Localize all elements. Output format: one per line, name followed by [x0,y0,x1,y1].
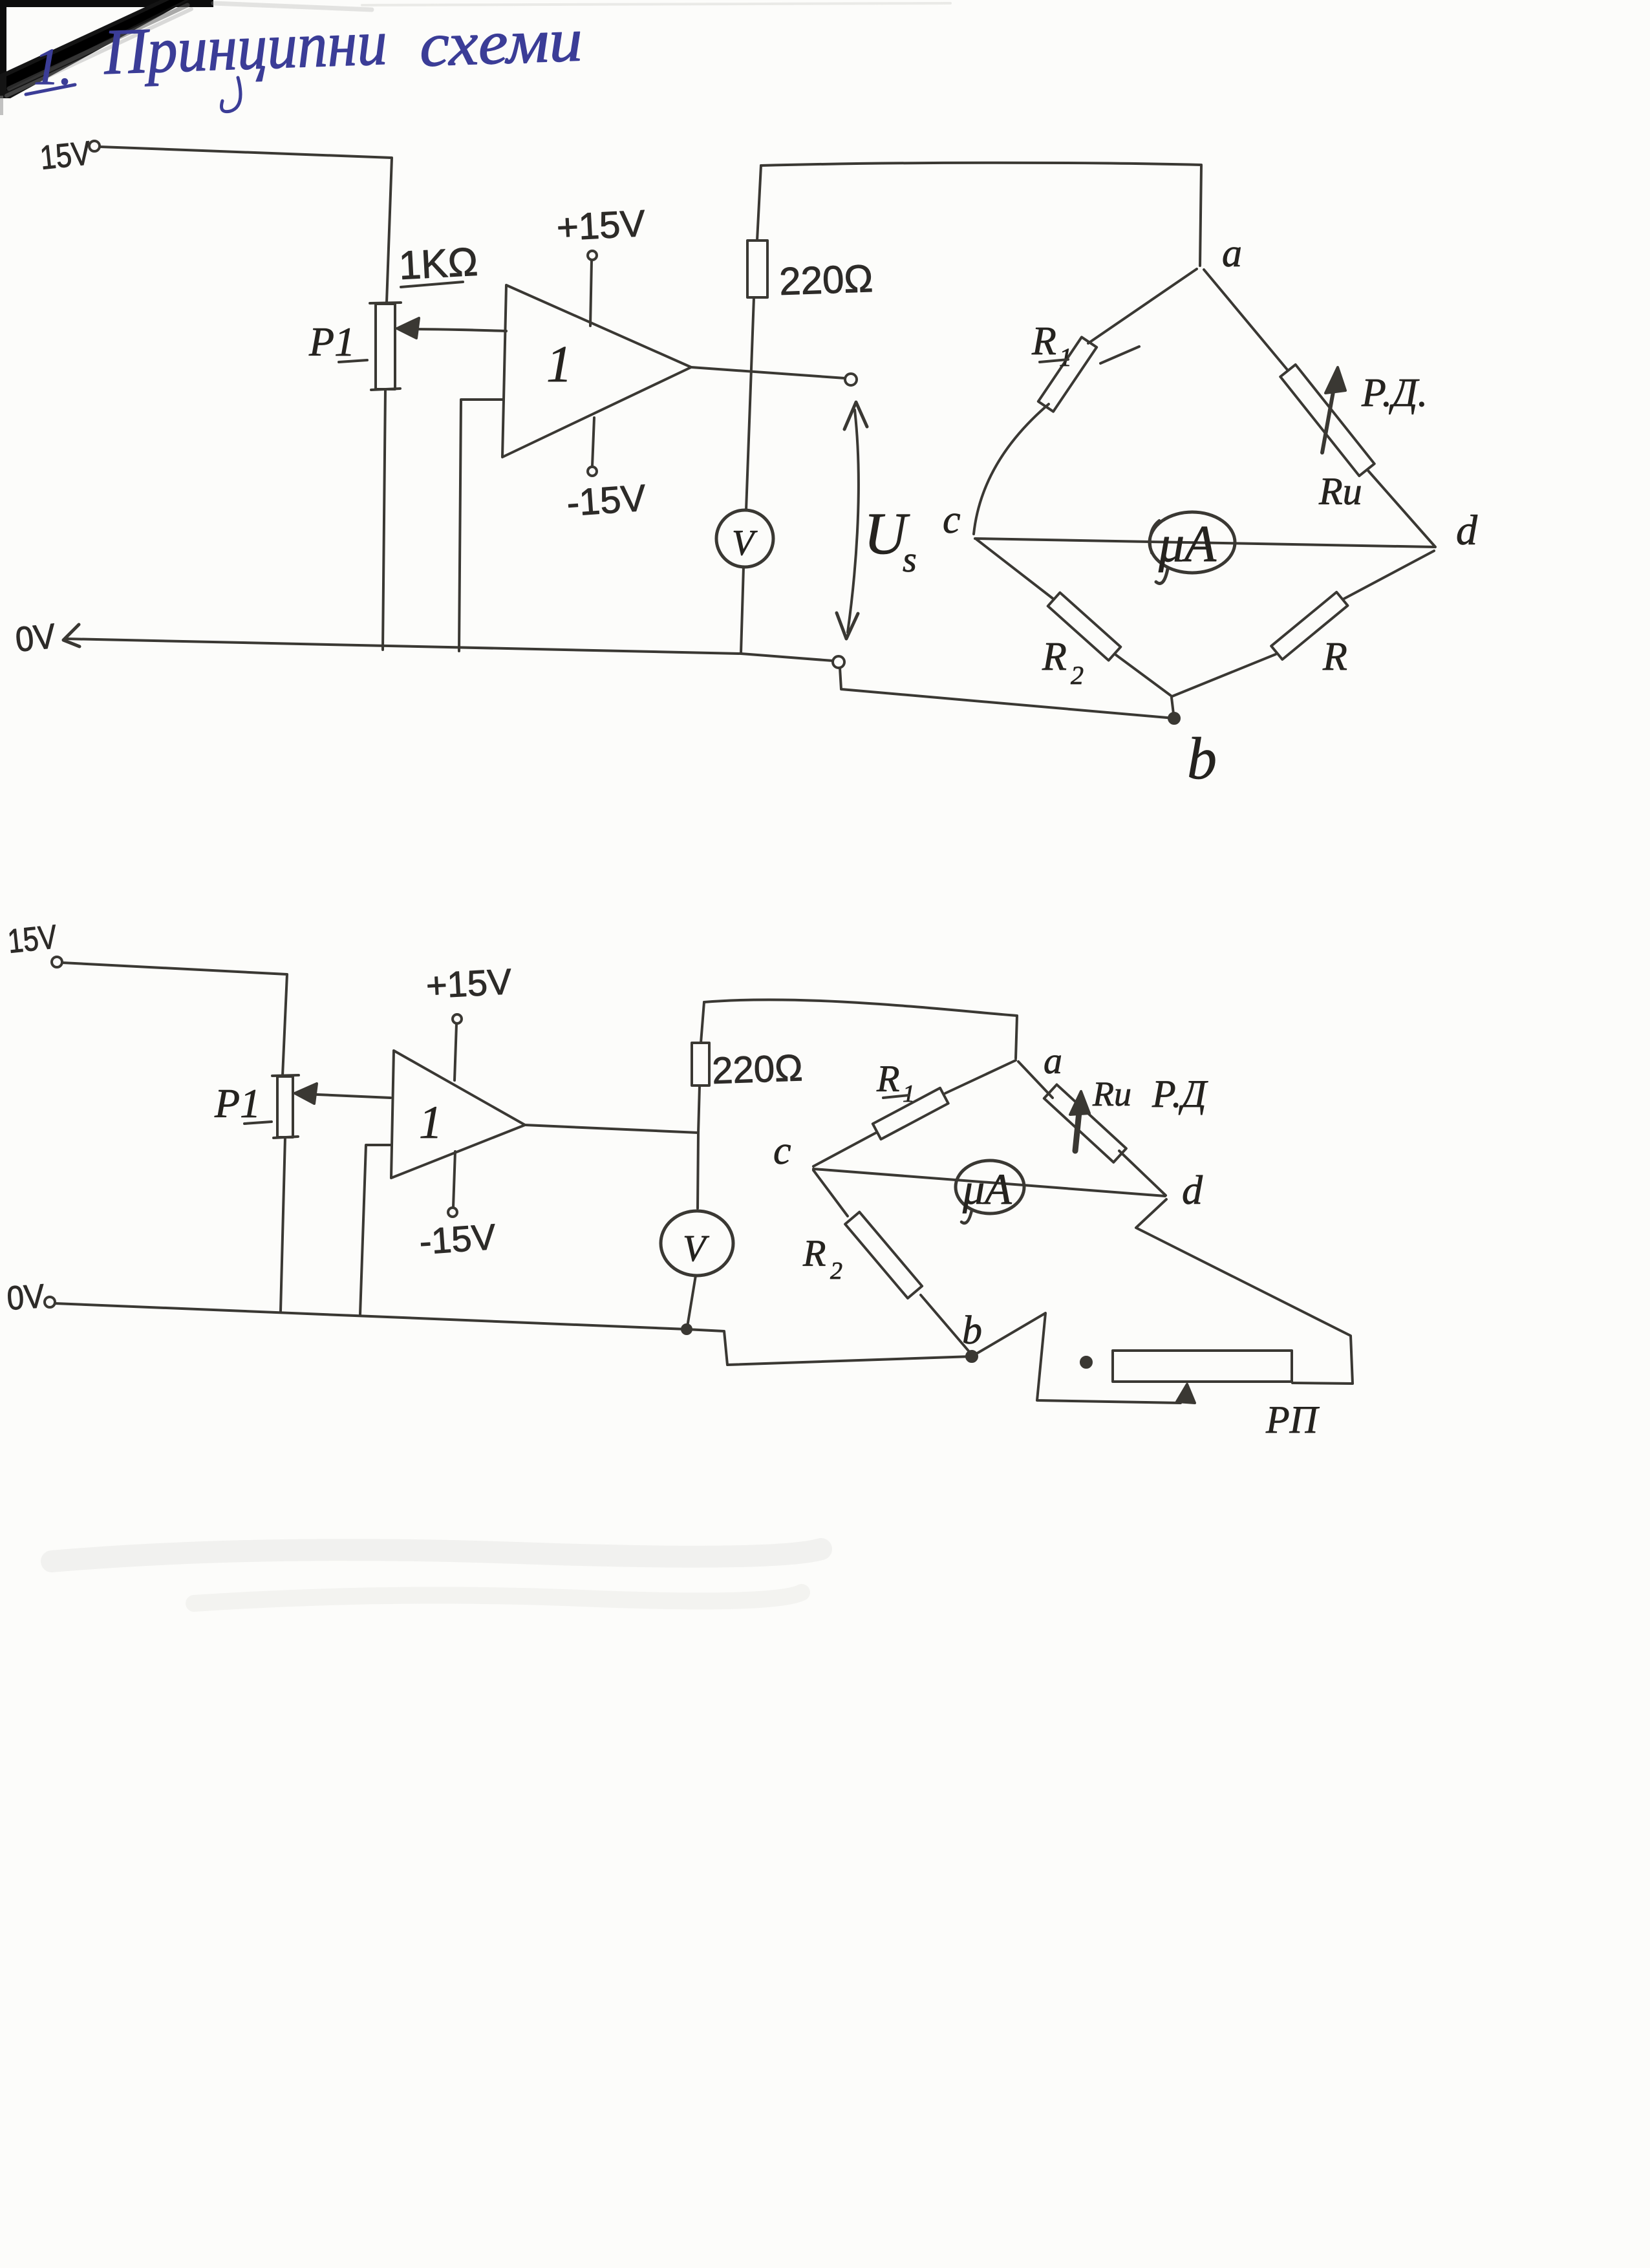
wire d to RP right [1136,1199,1353,1384]
svg-text:2: 2 [830,1257,842,1285]
svg-text:2: 2 [1071,661,1084,690]
terminal 15V [52,957,62,967]
descender of ц [222,78,241,112]
svg-text:15V: 15V [6,918,59,961]
+15V pin [453,1014,462,1023]
wire V to 0V junction [687,1276,696,1327]
svg-text:+15V: +15V [555,202,647,249]
svg-text:1: 1 [546,336,572,393]
svg-text:РП: РП [1265,1398,1320,1441]
node b [967,1351,977,1362]
node b junction [1172,698,1173,714]
wire c to R1 [813,1133,876,1166]
svg-text:R: R [802,1232,826,1274]
potentiometer RP [1113,1351,1292,1382]
wire + input to 0V [459,400,502,651]
svg-text:220Ω: 220Ω [711,1047,803,1092]
terminal 0V [45,1297,55,1307]
wire top rail to bridge [761,163,1201,266]
resistor R2 [845,1212,922,1298]
wire Ri to d [1368,471,1435,547]
voltmeter V [716,510,773,567]
svg-text:0V: 0V [6,1278,46,1318]
svg-text:a: a [1222,231,1242,275]
wire R to b [1172,654,1276,696]
resistor R [1271,592,1347,659]
svg-text:Р.Д.: Р.Д. [1361,371,1428,415]
svg-text:V: V [732,523,758,563]
terminal 15V [89,141,100,151]
svg-text:15V: 15V [38,134,92,177]
title "Принципни схеми" (blue handwriting) [26,5,584,111]
wire c to R2 [976,539,1054,599]
wire 0V rail [55,1303,972,1365]
svg-text:схеми: схеми [418,5,584,80]
svg-text:P1: P1 [214,1080,261,1126]
svg-text:R: R [876,1058,899,1100]
svg-text:a: a [1044,1040,1062,1082]
svg-text:-15V: -15V [565,477,647,524]
svg-text:b: b [962,1309,982,1353]
svg-text:c: c [773,1129,791,1173]
svg-text:1KΩ: 1KΩ [398,240,479,288]
svg-text:Rи: Rи [1318,470,1362,513]
svg-text:P1: P1 [308,319,355,365]
svg-text:c: c [943,498,961,542]
wire 15V to P1 [62,963,287,1076]
wire a to Ri [1018,1062,1053,1098]
wire P1 bottom to 0V [383,389,385,650]
scanner corner artifact [0,0,372,115]
wire Ri to d [1119,1151,1166,1195]
wire terminal to b [840,668,1174,718]
resistor 220Ω [747,241,767,297]
svg-text:0V: 0V [14,617,58,659]
resistor 220Ω [701,1002,704,1043]
wire c to d through uA [975,539,1434,547]
arrow through Ri [1075,1099,1080,1151]
wire R2 to b [921,1295,970,1353]
wire output [525,1125,698,1133]
wire 15V rail to P1 [100,147,392,303]
wire voltmeter to 0V [741,567,744,653]
svg-text:1: 1 [903,1080,915,1107]
svg-text:R: R [1322,635,1347,679]
svg-text:Принципни: Принципни [102,6,389,88]
wire R2 to b [1116,655,1171,696]
svg-text:Rи: Rи [1092,1075,1131,1113]
wire op-amp output [691,367,845,378]
op-amp U2 [391,1051,525,1178]
wire 220Ω branch [757,166,761,241]
svg-text:R: R [1031,319,1056,363]
svg-text:s: s [903,540,917,580]
svg-text:+15V: +15V [425,961,513,1006]
wire c to R2 [813,1170,848,1216]
wire 220Ω down to V [698,1086,700,1208]
wire top rail [704,1000,1017,1058]
wire a to R1 [1088,269,1197,343]
potentiometer P1 [277,1076,293,1137]
terminal output [845,374,857,385]
arrow Us [848,410,859,632]
svg-text:Р.Д: Р.Д [1152,1073,1208,1115]
svg-text:μA: μA [962,1164,1012,1214]
voltmeter V [661,1211,733,1276]
svg-text:μA: μA [1158,516,1217,573]
svg-text:V: V [683,1227,710,1269]
svg-text:1: 1 [419,1097,442,1148]
wire a to Ri [1204,270,1288,370]
resistor Ri [1044,1085,1126,1162]
wire R1 to c (curved) [974,404,1049,534]
wire b to RP wiper [972,1313,1185,1403]
+15V pin [588,251,597,260]
potentiometer P1 [376,304,395,389]
microammeter uA [813,1169,1165,1196]
svg-text:1: 1 [1059,343,1072,372]
svg-text:-15V: -15V [418,1216,497,1262]
wire 0V rail [66,639,833,661]
-15V pin [453,1151,455,1207]
terminal 0V mark [63,625,80,647]
svg-text:b: b [1187,725,1217,791]
svg-text:R: R [1042,635,1067,679]
arrow through Ri [1322,378,1336,453]
terminal bottom [833,656,844,668]
resistor R2 [1048,593,1121,661]
svg-text:d: d [1456,507,1478,554]
resistor R1 [1038,337,1097,411]
wiper arrow of P1 [405,329,506,331]
svg-text:d: d [1182,1167,1203,1213]
-15V pin [592,418,594,466]
wiper arrow [303,1094,391,1098]
wire 220Ω to voltmeter [746,297,754,510]
microammeter uA [1150,512,1235,573]
ghost bleed-through marks [52,3,950,1603]
wire + input to 0V [360,1145,391,1314]
resistor R1 [873,1088,948,1139]
junction dot left of RP [1081,1357,1091,1367]
wire d to R [1343,551,1434,599]
resistor Ri (P.D.) [1280,365,1374,476]
wire R1 to a [945,1060,1016,1093]
svg-text:220Ω: 220Ω [778,257,873,303]
wire P1 bottom [281,1137,285,1311]
op-amp U1 [502,285,691,457]
